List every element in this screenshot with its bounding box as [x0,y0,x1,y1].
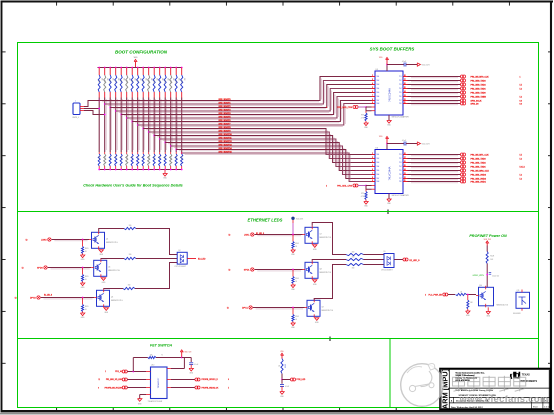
ground U6 [388,194,390,200]
svg-text:SYS_BOOT5: SYS_BOOT5 [219,117,232,119]
wire output PR1_MII1_TXD2 [408,162,461,164]
svg-text:Q5: Q5 [108,266,110,268]
resistor R154 pullup [175,67,177,69]
svg-text:R10: R10 [97,80,99,83]
ground emitter Q4 [99,250,104,253]
wire output PR1_MII_MT0_CLK [408,76,461,78]
resistor R160 pulldown [98,152,100,154]
svg-text:E2_LED: E2_LED [198,258,206,260]
resistor R162 pulldown [109,152,111,154]
svg-text:BOOT CONFIGURATION: BOOT CONFIGURATION [115,50,168,55]
wire SYS_BOOT9 column with junction [148,98,150,153]
svg-text:52: 52 [22,268,24,270]
wire DPX1 to Q9 base [253,307,305,309]
svg-text:VDD_3V3: VDD_3V3 [422,143,430,145]
resistor R174 pulldown [175,152,177,154]
svg-text:10K: 10K [133,78,135,81]
svg-text:MMUN2211LT1G: MMUN2211LT1G [111,300,123,302]
svg-text:11: 11 [404,102,406,104]
IC U5 74LVC244A buffer [375,71,403,115]
svg-text:Check Hardware User's Guide fo: Check Hardware User's Guide for Boot Seq… [83,184,182,188]
resistor R168 pulldown [142,152,144,154]
resistor R161 pulldown [104,152,106,154]
svg-text:R105: R105 [295,316,299,318]
svg-text:Date: Wednesday, April 04, 20: Date: Wednesday, April 04, 2012 [451,406,483,409]
resistor R165 pulldown [126,152,128,154]
svg-text:R115: R115 [180,80,182,83]
svg-text:R113: R113 [169,156,171,159]
wire SYS_BOOT4 to buffer [121,93,371,115]
svg-text:10K: 10K [155,78,157,81]
resistor R132 pulldown [467,295,469,301]
svg-text:R17: R17 [136,80,138,83]
port fet out2 [167,387,171,389]
svg-text:R169: R169 [285,364,287,368]
svg-text:10K: 10K [166,78,168,81]
svg-text:10K: 10K [139,78,141,81]
svg-text:PR1_MII0_CRS: PR1_MII0_CRS [337,107,352,109]
svg-text:R114: R114 [174,156,176,159]
transistor Q7 MMUN2211 [305,227,318,243]
svg-text:5.5: 5.5 [520,154,522,156]
svg-text:1Y3: 1Y3 [399,84,402,86]
port PR1_MII0_TXD0 [460,91,463,94]
port PR1_MII0_TXD2 [460,83,463,86]
svg-text:SYS_BOOT14: SYS_BOOT14 [219,147,233,150]
port PR1_MII_MT1_CLK [460,153,463,156]
svg-text:10K: 10K [172,78,174,81]
svg-text:MMUN2211LT1G: MMUN2211LT1G [108,270,120,272]
tick on green divider 1 [387,210,389,215]
resistor R166 pulldown [131,152,133,154]
resistor R142 pullup [109,67,111,69]
svg-text:TS5A23157: TS5A23157 [157,377,160,388]
svg-text:Q9: Q9 [322,306,324,308]
svg-text:R12: R12 [108,156,110,159]
port DPX0 input [37,296,40,299]
svg-text:PR1_MII1_TXD2: PR1_MII1_TXD2 [471,162,487,164]
resistor R147 pullup [137,67,139,69]
port PR1_MII_MT0_CLK [460,75,463,78]
page border frame [1,1,554,3]
wire SYS_BOOT13 column with junction [170,98,172,153]
wire SYS_BOOT2 column with junction [109,98,111,153]
svg-text:SYS_BOOT15: SYS_BOOT15 [219,152,233,154]
svg-text:1Y1: 1Y1 [399,76,402,78]
svg-text:10K: 10K [106,78,108,81]
wire SYS_BOOT10 column with junction [153,98,155,153]
svg-text:1Y6: 1Y6 [399,174,402,176]
wire switch to columns [84,101,99,107]
svg-text:14: 14 [404,169,406,171]
pin stubs U5 row 2 [372,80,376,82]
svg-text:DPX0: DPX0 [30,298,36,300]
transistor Q5 MMUN2211 [94,260,107,276]
ground emitter Q5 [101,278,106,281]
capacitor C41 [281,380,283,384]
pin stubs U5 row 3 [372,84,376,86]
svg-text:330: 330 [352,252,355,254]
svg-text:16: 16 [404,161,406,163]
wire SPD1 to Q8 base [255,269,303,271]
svg-text:R112: R112 [163,156,165,159]
svg-text:R105: R105 [85,276,89,278]
wire OE U6 [358,185,366,187]
transistor Q9 MMUN2211 [307,300,320,316]
wire SYS_BOOT0 column with junction [98,98,100,153]
svg-text:SYS_BOOT8: SYS_BOOT8 [219,127,232,129]
svg-text:1Y4: 1Y4 [399,166,402,168]
svg-text:15: 15 [404,165,406,167]
svg-text:R11: R11 [103,156,105,159]
svg-text:R105: R105 [85,248,89,250]
port PR1_MII1_CRS OE input [353,184,356,187]
wire SYS_BOOT6 column with junction [131,98,133,153]
svg-text:PLC_PWR_EN: PLC_PWR_EN [428,295,442,297]
svg-text:52: 52 [15,298,17,300]
ground emitter Q9 [315,318,319,321]
resistor R171 pulldown [159,152,161,154]
wire SYS_BOOT4 column with junction [120,98,122,153]
power VDD_3V3 boot pullup rail [134,60,137,62]
svg-text:1K: 1K [295,319,297,321]
svg-text:PR1_MII_MT1_CLK: PR1_MII_MT1_CLK [471,154,490,156]
svg-text:R19: R19 [147,80,149,83]
svg-text:PR1_MII0_TXD3: PR1_MII0_TXD3 [471,80,487,82]
wire SYS_BOOT12 column with junction [164,98,166,153]
port PR1_MII1_TXD3 [460,157,463,160]
svg-text:Q10: Q10 [479,285,482,287]
border zone ticks [56,2,58,6]
svg-text:VDD_3V3: VDD_3V3 [296,219,303,221]
resistor R152 pullup [164,67,166,69]
power tap VDD led [291,217,294,220]
svg-text:10K: 10K [100,78,102,81]
wire output PR1_MII0_TXD1 [408,88,461,90]
svg-text:52: 52 [227,308,229,310]
svg-text:13: 13 [404,173,406,175]
port PR1_MII1_TXD1 [460,165,463,168]
ground below pulldown SPD0 [80,283,84,286]
resistor R175 pulldown [181,152,183,154]
resistor pulldown at DPX0 [82,298,84,305]
svg-text:PROFINET Power ON: PROFINET Power ON [469,234,507,238]
svg-text:R105: R105 [295,243,299,245]
svg-text:52: 52 [26,240,28,242]
svg-text:SYS_BOOT10: SYS_BOOT10 [219,134,233,136]
svg-text:52: 52 [229,270,231,272]
wire SYS_BOOT5 to buffer [127,97,372,119]
wire SYS_BOOT8 column with junction [142,98,144,153]
resistor R149 pullup [148,67,150,69]
svg-text:SPD0: SPD0 [37,268,43,270]
resistor R170 pulldown [153,152,155,154]
resistor R141 pullup [104,67,106,69]
svg-text:R18: R18 [141,156,143,159]
svg-text:1K: 1K [85,309,87,311]
boot pulldown bottom rail [99,169,182,171]
svg-text:52: 52 [229,235,231,237]
port LNK0 input [48,238,51,241]
svg-text:SYS_BOOT13: SYS_BOOT13 [219,145,233,147]
wire SYS_BOOT3 to buffer [116,89,372,112]
svg-text:PROFIB_MII_RXLINK: PROFIB_MII_RXLINK [105,387,123,389]
power arrow VDD_3V3 U5 [417,63,420,66]
ground OE U6 [364,202,368,205]
svg-text:5.5: 5.5 [520,84,522,86]
resistor R172 pulldown [164,152,166,154]
svg-text:E2_LED_G: E2_LED_G [410,260,421,262]
svg-text:330: 330 [128,285,131,287]
svg-text:D2: D2 [179,250,181,252]
svg-text:SYS_BOOT3: SYS_BOOT3 [219,110,232,112]
svg-text:10K: 10K [128,78,130,81]
ground emitter Q8 [313,280,317,283]
svg-text:PR1_MII1_RXD2: PR1_MII1_RXD2 [471,178,487,180]
svg-text:1Y3: 1Y3 [399,162,402,164]
svg-text:E2_LED_G: E2_LED_G [256,233,265,235]
wire collector Q4 with resistor [99,229,124,232]
svg-text:330: 330 [352,267,355,269]
pin stubs U6 row 7 [372,178,376,180]
svg-text:Sheet: Sheet [533,406,538,409]
svg-text:LTST-C155GEKT: LTST-C155GEKT [381,270,393,272]
svg-text:1Y2: 1Y2 [399,158,402,160]
wire output PR1_MII_MT1_CLK [408,154,461,156]
resistor pulldown at LNK1 [292,235,294,242]
resistor R128 10K [486,246,488,252]
svg-text:LNK1: LNK1 [244,235,250,237]
wire output PR1_MII1_RXD1 [408,181,461,183]
title block [440,369,550,410]
svg-text:MMUN2211LT1G: MMUN2211LT1G [320,237,332,239]
svg-text:DNL/LRKR: DNL/LRKR [513,313,521,315]
svg-text:12: 12 [404,177,406,179]
svg-text:11: 11 [99,379,101,381]
wire SYS_BOOT11 to buffer [160,139,372,167]
svg-text:1Y5: 1Y5 [399,92,402,94]
wire output PR1_MII0_TXD0 [408,92,461,94]
svg-text:1Y6: 1Y6 [399,96,402,98]
svg-text:VDD_3V3: VDD_3V3 [422,64,430,66]
svg-text:R113: R113 [169,80,171,83]
svg-text:PR1_MII_MT0_CLK: PR1_MII_MT0_CLK [471,76,490,78]
pin stubs U6 row 4 [372,166,376,168]
wire output SPI0_D0 [408,103,461,105]
port PR1_MII0_TXD1 [460,87,463,90]
svg-text:PR1_MII0_SD_LINK: PR1_MII0_SD_LINK [106,379,123,381]
wire output PR1_MII0_TXD3 [408,80,461,82]
svg-text:1Y8: 1Y8 [399,181,402,183]
svg-text:10K: 10K [144,78,146,81]
svg-text:SPI0_D0: SPI0_D0 [471,103,480,105]
capacitor C40 [182,357,192,359]
transistor Q11 spare [516,292,530,308]
svg-text:R115: R115 [180,156,182,159]
ground emitter Q6 [104,308,109,311]
resistor R144 pullup [120,67,122,69]
svg-text:R14: R14 [119,80,121,83]
svg-text:10K: 10K [122,78,124,81]
svg-text:10K: 10K [161,78,163,81]
connector SW1 [73,103,80,115]
svg-text:17: 17 [404,157,406,159]
wire SYS_BOOT6 to buffer [132,101,371,122]
resistor R151 pullup [159,67,161,69]
capacitor bypass U5 0.1uF [387,64,404,66]
svg-text:330: 330 [129,254,132,256]
port PR1_MII1_TXD2 [460,161,463,164]
wire SYS_BOOT8 to buffer [143,129,371,155]
svg-text:E2_LED_B: E2_LED_B [44,294,52,296]
svg-text:VDD_3V3: VDD_3V3 [484,239,491,241]
svg-text:6.6: 6.6 [520,100,522,102]
port SPD1 input [251,268,254,271]
wire LNK1 to Q7 base [255,234,303,236]
wire SYS_BOOT0 to buffer [99,77,371,101]
svg-text:SYS_BOOT12: SYS_BOOT12 [219,141,233,143]
wire SYS_BOOT14 to buffer [176,150,371,179]
svg-text:POE_LED: POE_LED [297,379,306,381]
resistor R155 pullup [181,67,183,69]
svg-text:Down 510: Down 510 [492,275,499,277]
transistor Q8 MMUN2211 [305,262,318,278]
svg-text:LNK0: LNK0 [41,240,47,242]
port PR1_MII1_RXD3 [460,173,463,176]
port PR1_MII_MR1_CLK [460,169,463,172]
svg-text:1K: 1K [85,279,87,281]
port PR1_MII0_TXD3 [460,79,463,82]
svg-text:R10: R10 [97,156,99,159]
svg-text:R114: R114 [174,80,176,83]
ground below pulldown LNK1 [291,250,295,253]
port PR1_MII0_TXEN [460,95,463,98]
wire output PR1_MII1_RXD2 [408,178,461,180]
svg-text:SYS BOOT BUFFERS: SYS BOOT BUFFERS [370,47,415,52]
svg-text:PROFIB_WDOB_OK: PROFIB_WDOB_OK [202,387,220,389]
svg-text:R128: R128 [490,256,494,258]
svg-text:330: 330 [129,225,132,227]
resistor R146 pullup [131,67,133,69]
resistor R153 pullup [170,67,172,69]
wire SYS_BOOT2 to buffer [110,85,371,108]
svg-text:PR1_MII1_RXD1: PR1_MII1_RXD1 [471,181,487,183]
pin stubs U6 row 6 [372,174,376,176]
power VDD pin U5 [386,65,388,72]
boot pullup top rail [98,67,183,69]
svg-text:TS5A23157DGSR: TS5A23157DGSR [148,400,163,403]
wire output PR1_MII1_TXD3 [408,158,461,160]
svg-text:1K: 1K [85,251,87,253]
svg-text:18: 18 [404,75,406,77]
tick on green divider 2 [329,337,331,342]
svg-text:PR1_MII_MR1_CLK: PR1_MII_MR1_CLK [471,170,490,172]
wire output SPI0_SCLK [408,100,461,102]
svg-text:SYS_BOOT2: SYS_BOOT2 [219,106,232,108]
wire SYS_BOOT9 to buffer [149,132,372,159]
resistor R145 pullup [126,67,128,69]
svg-text:PR1_MII0_TXEN: PR1_MII0_TXEN [471,96,487,98]
wire SYS_BOOT12 to buffer [165,143,371,171]
port PLC_PWR_EN input [443,293,446,296]
svg-text:R16: R16 [130,156,132,159]
svg-text:5.2: 5.2 [520,178,522,180]
wire SYS_BOOT5 column with junction [126,98,128,153]
port PD1_A8 [122,370,125,373]
wire SYS_BOOT15 column with junction [181,98,183,153]
resistor R143 pullup [115,67,117,69]
pin stubs U6 row 5 [372,170,376,172]
svg-text:ETHERNET LEDS: ETHERNET LEDS [248,217,283,222]
svg-text:1K: 1K [295,246,297,248]
svg-text:Q4: Q4 [106,238,108,240]
svg-text:SPI0_SCLK: SPI0_SCLK [471,100,482,102]
svg-text:5 of 10: 5 of 10 [544,407,550,409]
svg-text:PR1_MII1_RXD3: PR1_MII1_RXD3 [471,174,487,176]
resistor R131 series [456,293,467,295]
svg-text:17: 17 [404,79,406,81]
wire output PR1_MII1_RXD3 [408,174,461,176]
wire OE U5 [358,106,366,108]
svg-text:R18: R18 [141,80,143,83]
svg-text:74LVC244A: 74LVC244A [388,88,392,102]
svg-text:0.1uF: 0.1uF [194,364,198,366]
svg-text:MMUN2211LT1G: MMUN2211LT1G [497,305,509,307]
resistor OE pulldown U6 4.7K [365,189,367,191]
wire SYS_BOOT1 to buffer [105,81,372,105]
wire DPX0 to Q6 base [41,297,94,299]
wire SYS_BOOT1 column with junction [104,98,106,153]
led D5 dual [384,254,394,268]
svg-text:5.2: 5.2 [520,158,522,160]
svg-text:R19: R19 [147,156,149,159]
svg-text:PR1_MII0_TXD0: PR1_MII0_TXD0 [471,92,487,94]
svg-text:1: 1 [520,76,521,78]
svg-text:1Y4: 1Y4 [399,88,402,90]
ground boot rail [164,170,166,174]
wire collector Q6 with resistor [104,288,123,290]
pin stubs U5 row 5 [372,92,376,94]
svg-text:LTST-C155GEKT: LTST-C155GEKT [175,266,187,268]
svg-text:R105: R105 [295,278,299,280]
wire SYS_BOOT13 to buffer [171,146,372,175]
port POE_LED [282,379,291,381]
transistor Q6 MMUN2211 [97,290,110,306]
svg-text:0.1uF: 0.1uF [402,140,406,142]
port SPI0_SCLK [460,99,463,102]
pin stubs U5 row 7 [372,100,376,102]
port LNK1 input [251,233,254,236]
ground fet ic [146,394,151,396]
pin stubs U5 row 4 [372,88,376,90]
ground input divider [466,311,470,314]
svg-text:R110: R110 [152,156,154,159]
svg-text:MMUN2211LT1G: MMUN2211LT1G [322,310,334,312]
svg-text:5.0,5.2: 5.0,5.2 [520,166,525,168]
resistor OE pulldown U5 4.7K [365,111,367,113]
svg-text:SYS_BOOT1: SYS_BOOT1 [219,103,232,105]
resistor R150 pullup [153,67,155,69]
wire SYS_BOOT15 to buffer [182,153,372,182]
svg-text:18: 18 [404,153,406,155]
wire SYS_BOOT14 column with junction [175,98,177,153]
port fet in1 [122,378,125,381]
wire output PR1_MII0_TXD2 [408,84,461,86]
svg-text:1Y1: 1Y1 [399,154,402,156]
svg-text:1Y2: 1Y2 [399,80,402,82]
pin stubs U5 row 6 [372,96,376,98]
ground emitter Q7 [313,245,317,248]
